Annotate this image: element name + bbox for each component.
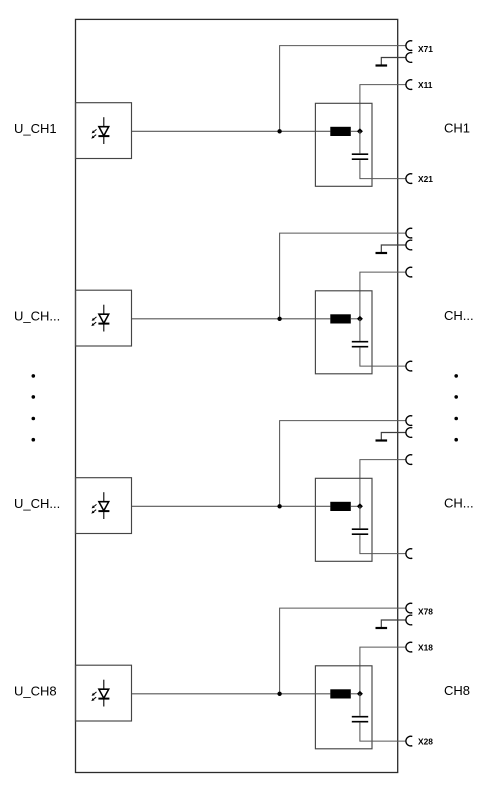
- connector contact X72 pin 1: [406, 228, 412, 238]
- svg-text:CH8: CH8: [444, 683, 470, 698]
- wire: choke to junction channel 3: [351, 505, 360, 507]
- inductor/choke L1: [330, 127, 351, 136]
- filter box channel 3: [315, 478, 372, 561]
- svg-text:CH1: CH1: [444, 120, 470, 135]
- node: junction bus/main channel 2: [277, 317, 281, 321]
- wire: bus riser channel 1: [280, 46, 407, 132]
- wire: choke to junction channel 2: [351, 318, 360, 320]
- svg-text:U_CH...: U_CH...: [14, 308, 60, 323]
- wire: choke to junction channel 4: [351, 693, 360, 695]
- connector contact X12: [406, 267, 412, 277]
- wire: functional-earth stub channel 4: [381, 620, 406, 627]
- inductor/choke L2: [330, 314, 351, 323]
- LED indicator box channel 4: [76, 665, 132, 721]
- connector contact pin 2 (earth) channel 4: [406, 615, 412, 625]
- node: junction choke/cap channel 1: [357, 128, 363, 134]
- node: junction bus/main channel 1: [277, 129, 281, 133]
- connector contact X78 pin 1: [406, 603, 412, 613]
- LED indicator box channel 3: [76, 478, 132, 534]
- connector contact pin 2 (earth) channel 1: [406, 53, 412, 63]
- node: junction choke/cap channel 4: [357, 691, 363, 697]
- wire: functional-earth stub channel 3: [381, 433, 406, 440]
- LED indicator box channel 1: [76, 103, 132, 159]
- svg-text:CH...: CH...: [444, 308, 474, 323]
- wire: main line channel 3: [132, 505, 331, 507]
- connector contact pin 2 (earth) channel 2: [406, 240, 412, 250]
- wire: choke to junction channel 1: [351, 130, 360, 132]
- wire: functional-earth stub channel 2: [381, 245, 406, 252]
- LED indicator box channel 2: [76, 290, 132, 346]
- wire: main line channel 2: [132, 318, 331, 320]
- LED D2 (status LED): [91, 305, 109, 332]
- wire: junction down to capacitor channel 4: [359, 694, 361, 716]
- inductor/choke L4: [330, 689, 351, 698]
- ground (functional earth) channel 3: [376, 439, 388, 441]
- node: junction choke/cap channel 2: [357, 316, 363, 322]
- svg-text:X28: X28: [418, 737, 433, 747]
- connector contact X73 pin 1: [406, 416, 412, 426]
- svg-text:X71: X71: [418, 44, 433, 54]
- wire: output to X13: [360, 460, 406, 507]
- capacitor C3: [352, 528, 368, 530]
- capacitor C2: [352, 341, 368, 343]
- svg-text:X11: X11: [418, 80, 433, 90]
- module border: [76, 19, 398, 772]
- filter box channel 4: [315, 666, 372, 749]
- wire: capacitor to X28: [360, 723, 406, 742]
- svg-text:CH...: CH...: [444, 495, 474, 510]
- connector contact X28: [406, 736, 412, 746]
- LED D3 (status LED): [91, 492, 109, 519]
- connector contact X71 pin 1: [406, 41, 412, 51]
- wire: junction down to capacitor channel 2: [359, 319, 361, 341]
- wire: capacitor to X22: [360, 348, 406, 367]
- wire: main line channel 4: [132, 693, 331, 695]
- ellipsis dots right (channels continued): [454, 374, 458, 378]
- wire: functional-earth stub channel 1: [381, 58, 406, 65]
- filter box channel 1: [315, 103, 372, 186]
- wire: junction down to capacitor channel 1: [359, 131, 361, 153]
- svg-text:X18: X18: [418, 642, 433, 652]
- wire: capacitor to X23: [360, 535, 406, 554]
- capacitor C1: [352, 153, 368, 155]
- ellipsis dots left (channels continued): [32, 374, 36, 378]
- wire: bus riser channel 4: [280, 608, 407, 694]
- wire: junction down to capacitor channel 3: [359, 506, 361, 528]
- LED D1 (status LED): [91, 117, 109, 144]
- ground (functional earth) channel 1: [376, 64, 388, 66]
- wire: output to X11: [360, 85, 406, 132]
- connector contact X18: [406, 642, 412, 652]
- wire: capacitor to X21: [360, 160, 406, 179]
- svg-text:U_CH...: U_CH...: [14, 496, 60, 511]
- filter box channel 2: [315, 291, 372, 374]
- node: junction bus/main channel 3: [277, 504, 281, 508]
- wire: output to X18: [360, 647, 406, 694]
- wire: main line channel 1: [132, 130, 331, 132]
- svg-text:X78: X78: [418, 607, 433, 617]
- svg-text:U_CH1: U_CH1: [14, 121, 57, 136]
- wire: bus riser channel 3: [280, 421, 407, 507]
- connector contact X22: [406, 361, 412, 371]
- connector contact X13: [406, 455, 412, 465]
- node: junction choke/cap channel 3: [357, 503, 363, 509]
- node: junction bus/main channel 4: [277, 692, 281, 696]
- inductor/choke L3: [330, 502, 351, 511]
- connector contact X23: [406, 549, 412, 559]
- connector contact pin 2 (earth) channel 3: [406, 428, 412, 438]
- svg-text:X21: X21: [418, 174, 433, 184]
- LED D4 (status LED): [91, 680, 109, 707]
- wire: bus riser channel 2: [280, 233, 407, 319]
- ground (functional earth) channel 2: [376, 252, 388, 254]
- connector contact X21: [406, 174, 412, 184]
- capacitor C4: [352, 716, 368, 718]
- wire: output to X12: [360, 272, 406, 319]
- svg-text:U_CH8: U_CH8: [14, 683, 57, 698]
- ground (functional earth) channel 4: [376, 627, 388, 629]
- connector contact X11: [406, 80, 412, 90]
